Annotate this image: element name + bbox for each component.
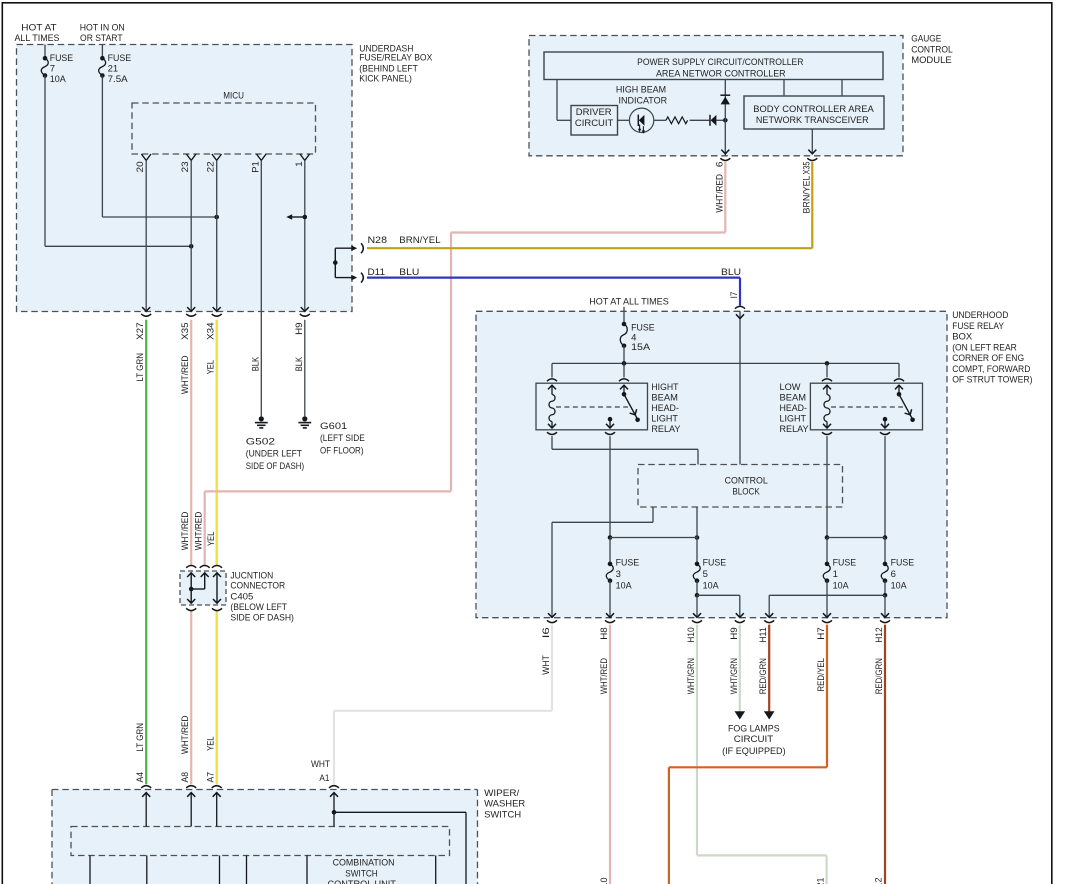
svg-text:WHT: WHT [311, 759, 330, 770]
svg-text:WHT/RED: WHT/RED [180, 355, 190, 394]
svg-text:HIGH BEAM: HIGH BEAM [616, 84, 666, 95]
svg-text:COMPT, FORWARD: COMPT, FORWARD [952, 364, 1030, 375]
svg-text:BLK: BLK [250, 357, 260, 371]
svg-text:WHT/RED: WHT/RED [714, 174, 724, 213]
svg-text:RELAY: RELAY [651, 424, 681, 435]
svg-text:G601: G601 [320, 421, 347, 432]
svg-text:DRIVER: DRIVER [576, 107, 612, 118]
svg-text:BEAM: BEAM [780, 393, 807, 404]
svg-text:FUSE: FUSE [703, 557, 727, 568]
svg-text:LIGHT: LIGHT [780, 414, 807, 425]
svg-text:H8: H8 [599, 627, 609, 640]
svg-text:UNDERHOOD: UNDERHOOD [952, 310, 1008, 321]
svg-text:H10: H10 [686, 627, 696, 643]
svg-text:WASHER: WASHER [484, 799, 525, 810]
svg-text:LIGHT: LIGHT [651, 414, 678, 425]
svg-text:I7: I7 [729, 292, 739, 299]
svg-text:SWITCH: SWITCH [345, 869, 378, 880]
svg-text:FOG LAMPS: FOG LAMPS [728, 724, 780, 735]
svg-text:G502: G502 [246, 437, 275, 448]
svg-text:A10: A10 [599, 878, 609, 884]
svg-text:3: 3 [616, 569, 621, 580]
svg-text:N28: N28 [368, 235, 388, 246]
svg-text:FUSE: FUSE [891, 557, 915, 568]
svg-text:SWITCH: SWITCH [484, 809, 521, 820]
svg-text:22: 22 [206, 161, 216, 172]
svg-text:X35: X35 [801, 162, 811, 175]
svg-text:1: 1 [294, 161, 304, 167]
svg-text:HEAD-: HEAD- [780, 403, 808, 414]
svg-text:CIRCUIT: CIRCUIT [734, 734, 774, 745]
svg-text:7.5A: 7.5A [108, 74, 129, 85]
svg-text:YEL: YEL [206, 737, 216, 751]
svg-text:(LEFT SIDE: (LEFT SIDE [320, 433, 365, 444]
svg-text:LT GRN: LT GRN [135, 723, 145, 752]
svg-text:MICU: MICU [223, 91, 244, 102]
svg-text:H7: H7 [816, 627, 826, 640]
svg-text:X27: X27 [135, 322, 145, 340]
svg-text:GAUGE: GAUGE [911, 34, 941, 45]
svg-text:WIPER/: WIPER/ [484, 788, 520, 799]
svg-text:YEL: YEL [206, 532, 216, 546]
svg-text:X34: X34 [206, 322, 216, 340]
svg-text:(IF EQUIPPED): (IF EQUIPPED) [722, 746, 786, 757]
svg-text:(BELOW LEFT: (BELOW LEFT [230, 602, 287, 613]
svg-text:WHT/GRN: WHT/GRN [686, 658, 696, 694]
svg-text:10A: 10A [833, 581, 850, 592]
svg-text:(UNDER LEFT: (UNDER LEFT [246, 449, 302, 460]
svg-text:WHT: WHT [541, 655, 551, 675]
svg-text:COMBINATION: COMBINATION [333, 858, 395, 869]
svg-text:(ON LEFT REAR: (ON LEFT REAR [952, 343, 1017, 354]
svg-text:10A: 10A [891, 581, 908, 592]
svg-text:INDICATOR: INDICATOR [618, 96, 667, 107]
svg-text:LOW: LOW [780, 382, 801, 393]
svg-text:6: 6 [714, 162, 724, 168]
svg-text:1: 1 [833, 569, 838, 580]
svg-text:10A: 10A [703, 581, 720, 592]
svg-text:H9: H9 [294, 322, 304, 335]
svg-text:NETWORK TRANSCEIVER: NETWORK TRANSCEIVER [756, 115, 869, 126]
svg-text:10A: 10A [50, 74, 67, 85]
svg-text:BLOCK: BLOCK [732, 487, 760, 498]
svg-text:A21: A21 [816, 878, 826, 884]
svg-text:ALL TIMES: ALL TIMES [15, 33, 60, 44]
svg-text:OF FLOOR): OF FLOOR) [320, 445, 364, 456]
svg-text:H12: H12 [874, 627, 884, 643]
svg-text:KICK PANEL): KICK PANEL) [359, 74, 412, 85]
svg-text:A12: A12 [874, 878, 884, 884]
svg-text:H9: H9 [729, 627, 739, 640]
svg-text:CORNER OF ENG: CORNER OF ENG [952, 353, 1024, 364]
svg-text:BODY CONTROLLER AREA: BODY CONTROLLER AREA [753, 104, 874, 115]
svg-text:WHT/RED: WHT/RED [180, 715, 190, 754]
svg-text:23: 23 [180, 161, 190, 172]
svg-text:20: 20 [135, 161, 145, 172]
svg-text:WHT/RED: WHT/RED [194, 511, 204, 550]
svg-text:OF STRUT TOWER): OF STRUT TOWER) [952, 375, 1032, 386]
svg-text:P1: P1 [250, 161, 260, 173]
svg-text:X35: X35 [180, 322, 190, 340]
svg-text:BLK: BLK [294, 357, 304, 371]
svg-text:RED/GRN: RED/GRN [874, 658, 884, 694]
svg-text:A4: A4 [135, 772, 145, 783]
svg-text:I6: I6 [541, 627, 551, 638]
svg-text:OR START: OR START [80, 33, 123, 44]
svg-text:CONTROL: CONTROL [911, 45, 953, 56]
svg-text:BOX: BOX [952, 332, 973, 343]
svg-text:CONNECTOR: CONNECTOR [230, 581, 285, 592]
svg-text:FUSE: FUSE [833, 557, 857, 568]
svg-text:BRN/YEL: BRN/YEL [399, 235, 440, 246]
svg-text:HOT AT ALL TIMES: HOT AT ALL TIMES [589, 297, 669, 308]
svg-text:BEAM: BEAM [651, 393, 678, 404]
svg-text:SIDE OF DASH): SIDE OF DASH) [230, 612, 294, 623]
svg-text:HOT AT: HOT AT [21, 23, 57, 34]
svg-text:BLU: BLU [721, 267, 741, 278]
svg-text:FUSE: FUSE [616, 557, 640, 568]
svg-text:A7: A7 [206, 772, 216, 783]
svg-text:5: 5 [703, 569, 708, 580]
svg-text:LT GRN: LT GRN [135, 353, 145, 382]
svg-text:MODULE: MODULE [911, 55, 952, 66]
svg-text:H11: H11 [758, 627, 768, 643]
svg-text:CONTROL: CONTROL [725, 475, 768, 486]
svg-text:HIGHT: HIGHT [651, 382, 678, 393]
svg-text:RED/YEL: RED/YEL [816, 658, 826, 692]
svg-text:WHT/RED: WHT/RED [599, 658, 609, 695]
svg-text:BRN/YEL: BRN/YEL [801, 176, 811, 214]
svg-text:HEAD-: HEAD- [651, 403, 679, 414]
svg-text:A8: A8 [180, 772, 190, 783]
svg-text:6: 6 [891, 569, 896, 580]
svg-text:WHT/GRN: WHT/GRN [729, 658, 739, 694]
svg-text:C405: C405 [230, 592, 253, 603]
svg-text:POWER SUPPLY CIRCUIT/CONTROLLE: POWER SUPPLY CIRCUIT/CONTROLLER [637, 57, 803, 68]
svg-text:RED/GRN: RED/GRN [758, 658, 768, 694]
svg-text:FUSE RELAY: FUSE RELAY [952, 321, 1004, 332]
svg-text:WHT/RED: WHT/RED [180, 511, 190, 550]
svg-text:BLU: BLU [399, 267, 419, 278]
svg-text:CIRCUIT: CIRCUIT [575, 118, 614, 129]
svg-text:HOT IN ON: HOT IN ON [80, 23, 125, 34]
svg-text:10A: 10A [616, 581, 633, 592]
svg-text:YEL: YEL [206, 360, 216, 374]
svg-text:FUSE/RELAY BOX: FUSE/RELAY BOX [359, 53, 433, 64]
svg-text:SIDE OF DASH): SIDE OF DASH) [246, 461, 304, 472]
svg-text:D11: D11 [368, 267, 386, 278]
svg-text:CONTROL UNIT: CONTROL UNIT [328, 879, 397, 884]
svg-text:AREA NETWOR CONTROLLER: AREA NETWOR CONTROLLER [656, 68, 786, 79]
svg-text:RELAY: RELAY [780, 424, 810, 435]
svg-text:A1: A1 [319, 773, 329, 784]
svg-text:15A: 15A [631, 342, 651, 353]
